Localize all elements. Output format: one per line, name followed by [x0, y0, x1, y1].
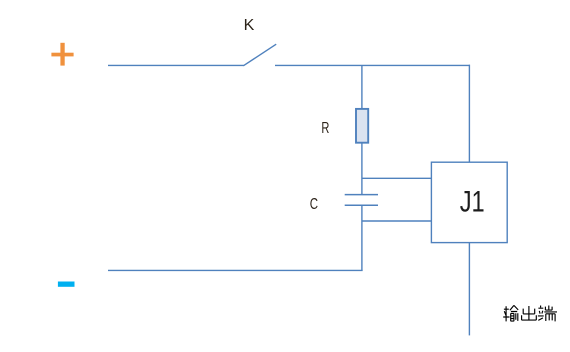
glyph 端	[538, 306, 557, 322]
switch K blade	[243, 44, 276, 66]
wire resistor branch (top rail to R)	[361, 65, 363, 109]
node - (negative supply terminal)	[58, 282, 75, 287]
svg-text:K: K	[244, 17, 255, 34]
wire R to C	[361, 143, 363, 195]
wire top rail right segment	[275, 64, 470, 66]
svg-text:R: R	[321, 120, 329, 137]
label 输出端 (output terminal)	[503, 305, 557, 321]
wire C bottom branch	[361, 205, 363, 271]
wire output (J1 to output terminal)	[468, 243, 470, 336]
glyph 输	[503, 305, 518, 321]
resistor R	[356, 109, 368, 143]
svg-text:C: C	[310, 196, 318, 213]
glyph 出	[522, 306, 537, 320]
svg-text:J1: J1	[460, 185, 485, 218]
wire top rail left segment	[108, 64, 244, 66]
relay J1 box	[431, 162, 507, 242]
wire bottom rail	[108, 269, 363, 271]
wire right vertical (top rail to J1)	[468, 65, 470, 163]
wire lower tap to J1	[362, 220, 432, 222]
wire upper tap to J1	[362, 177, 432, 179]
capacitor C	[345, 195, 378, 206]
node + (positive supply terminal)	[51, 43, 73, 66]
